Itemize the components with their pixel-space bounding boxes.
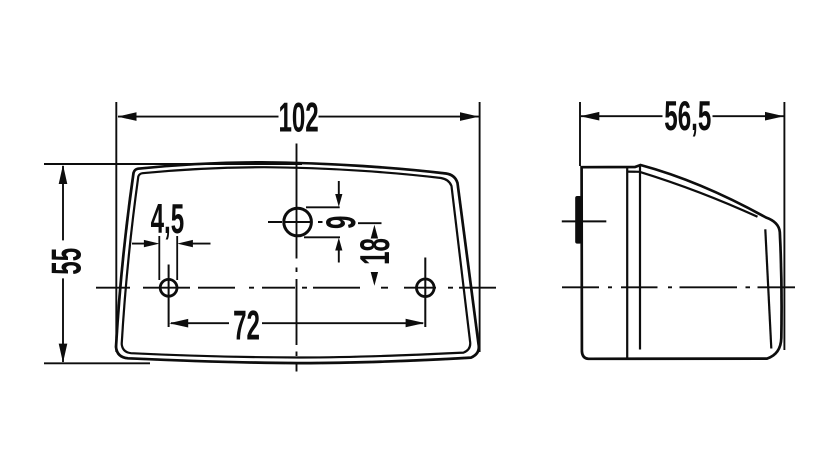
svg-text:102: 102 [278, 95, 318, 142]
lens divider line 1 [626, 168, 628, 359]
dimension 72 line [171, 322, 423, 324]
dimension 102 line [118, 116, 479, 118]
dimension 55 line [62, 166, 64, 362]
svg-text:9: 9 [318, 216, 365, 229]
svg-text:72: 72 [233, 303, 260, 350]
dimension 55 extension lines [44, 164, 302, 363]
front view inner contour [122, 167, 471, 357]
mounting hole left [160, 279, 177, 296]
dimension 18 line and arrows [371, 225, 378, 286]
lens divider line 2 [639, 165, 641, 350]
dimension 56,5 line [581, 115, 784, 117]
dimension 4,5 line and arrows [132, 243, 211, 245]
dimension 102 arrows [118, 112, 480, 121]
grommet tab [575, 196, 581, 244]
dimension 9 tangent lines [304, 207, 340, 237]
side view outline [582, 165, 782, 359]
dimension 102 extension lines [116, 102, 479, 352]
svg-text:55: 55 [44, 248, 91, 275]
dimension 56,5 arrows [580, 112, 784, 121]
dimension 9 arrows [338, 181, 340, 263]
cable hole [284, 208, 312, 236]
svg-text:4,5: 4,5 [151, 196, 185, 243]
svg-text:18: 18 [352, 238, 399, 265]
centerline through cable hole [268, 222, 382, 223]
dimension 4,5 extension lines [159, 236, 177, 280]
dimension 56,5 extension lines [580, 102, 784, 350]
front view outer outline [116, 162, 479, 363]
bulb axis mark [562, 220, 607, 222]
side view centerline [562, 286, 795, 288]
dimension 72 arrows [169, 319, 424, 328]
dimension 55 arrows [59, 165, 68, 363]
side view lens inner front edge [765, 229, 771, 348]
side view lens inner slant [627, 172, 758, 217]
svg-text:56,5: 56,5 [664, 93, 711, 140]
horizontal centerline through mounting holes [96, 287, 496, 289]
vertical centerline [296, 144, 298, 372]
mounting hole right [417, 279, 435, 297]
